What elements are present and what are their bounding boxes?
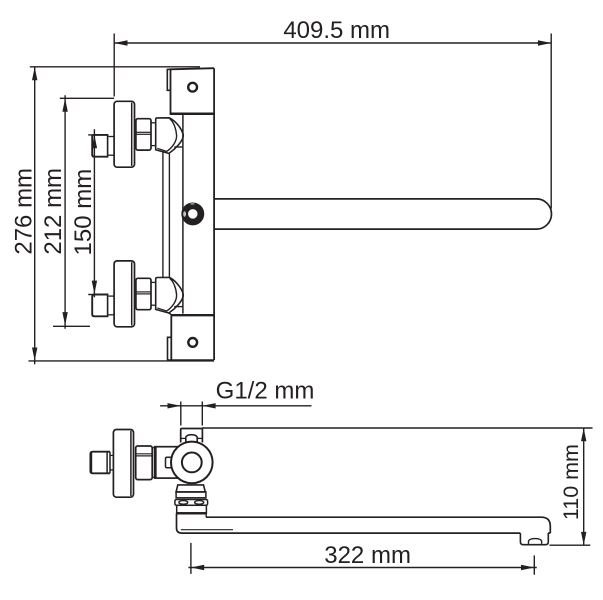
- svg-text:322 mm: 322 mm: [324, 542, 411, 569]
- svg-text:G1/2 mm: G1/2 mm: [216, 378, 315, 405]
- svg-text:110 mm: 110 mm: [559, 444, 583, 520]
- svg-text:212 mm: 212 mm: [40, 168, 67, 255]
- svg-text:150 mm: 150 mm: [70, 169, 97, 256]
- svg-text:276 mm: 276 mm: [10, 168, 37, 255]
- svg-text:409.5 mm: 409.5 mm: [283, 17, 390, 44]
